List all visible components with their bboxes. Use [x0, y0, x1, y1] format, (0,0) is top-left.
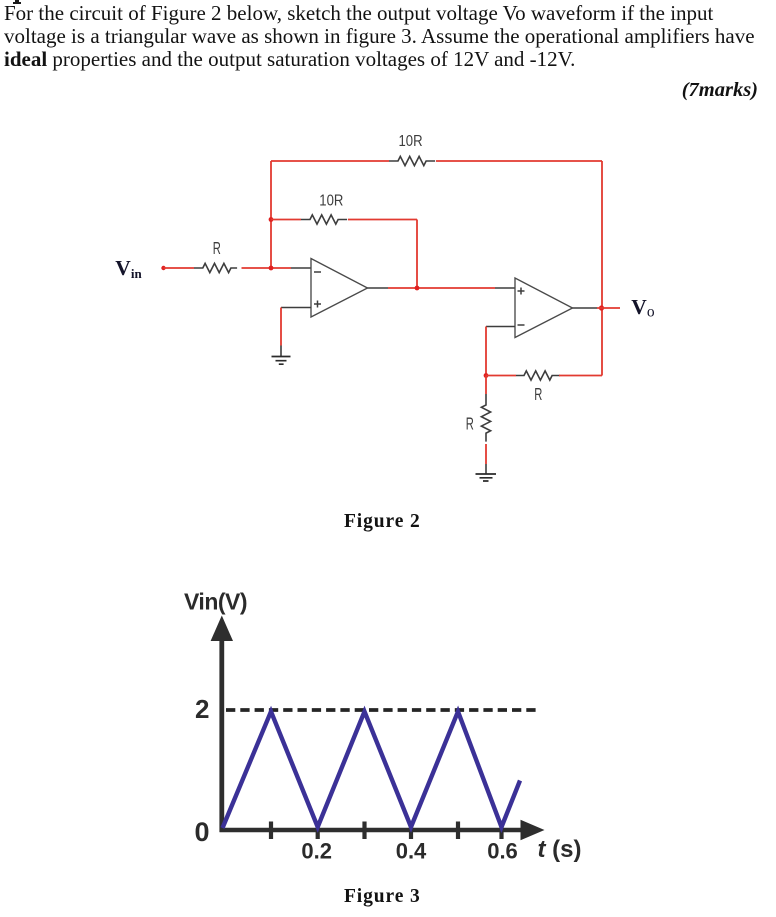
resistor R to ground [481, 394, 490, 442]
svg-text:0: 0 [195, 817, 210, 847]
wire from Vin terminal [164, 267, 195, 269]
svg-text:R: R [534, 386, 542, 405]
tick 0.5 [456, 822, 460, 840]
caption Figure 3 [344, 886, 421, 908]
y axis [219, 636, 224, 832]
wire top feedback right segment [436, 160, 602, 162]
wire inner feedback left segment [271, 219, 301, 221]
wire right vertical (output feedback bus) [601, 161, 603, 376]
wire U1 output to node A [388, 287, 495, 289]
wire resistor to ground [485, 444, 487, 464]
clipped glyph from previous line [15, 0, 19, 3]
wire U2 minus input stub [486, 326, 515, 328]
node output junction [599, 305, 604, 310]
wire U1 plus input stub [281, 307, 311, 309]
op-amp U1 [311, 259, 368, 318]
triangular wave [223, 712, 521, 829]
x axis arrowhead [521, 820, 545, 840]
resistor R feedback [516, 371, 560, 380]
svg-text:Vin: Vin [115, 256, 142, 281]
wire inner feedback right segment [348, 219, 417, 221]
wire U1 plus to ground [280, 308, 282, 346]
svg-text:R: R [466, 415, 474, 434]
node junction inner feedback [269, 217, 274, 222]
U1 minus sign [314, 271, 321, 273]
op-amp U2 [515, 278, 573, 338]
svg-text:R: R [213, 240, 221, 259]
U2 minus sign [518, 324, 525, 326]
x axis [220, 828, 523, 833]
svg-text:Vin(V): Vin(V) [184, 589, 247, 615]
wire U2 output [573, 307, 598, 309]
node A junction [415, 286, 420, 291]
svg-text:10R: 10R [399, 133, 423, 150]
wire stub to op-amp U2 plus input [495, 287, 515, 289]
ground symbol U1 [272, 357, 291, 365]
wire ground stub U1 [280, 346, 282, 357]
resistor R input [194, 263, 237, 272]
tick 0.6 [499, 822, 503, 840]
svg-text:t (s): t (s) [538, 836, 582, 863]
wire inner feedback vertical drop [416, 220, 418, 289]
tick 0.2 [316, 822, 320, 840]
svg-text:2: 2 [195, 694, 209, 724]
node B junction [484, 373, 489, 378]
wire feedback resistor to output bus [559, 375, 602, 377]
svg-text:Vo: Vo [631, 295, 655, 321]
dashed level 2 line [226, 708, 538, 712]
wire input to node [242, 267, 292, 269]
caption Figure 2 [344, 511, 421, 533]
wire left vertical [270, 161, 272, 268]
ground symbol lower [476, 474, 497, 481]
tick 0.1 [269, 822, 273, 840]
U2 plus sign [518, 288, 525, 295]
wire ground stub lower [485, 464, 487, 474]
tick 0.4 [409, 822, 413, 840]
node Vin terminal [161, 266, 165, 270]
svg-text:0.2: 0.2 [301, 839, 332, 864]
wire node B to feedback resistor [486, 375, 516, 377]
wire node B down [485, 376, 487, 395]
wire output stub to Vo [597, 307, 620, 309]
U1 plus sign [314, 301, 321, 308]
resistor 10R (inner feedback) [301, 215, 347, 224]
tick 0.3 [362, 822, 366, 840]
y axis arrowhead [211, 616, 233, 642]
svg-text:0.6: 0.6 [487, 839, 518, 864]
wire U1 output stub [368, 287, 389, 289]
wire top feedback left segment [271, 160, 389, 162]
svg-text:10R: 10R [319, 192, 343, 209]
wire U2 minus down to node B [485, 327, 487, 376]
resistor 10R (outer feedback) [389, 156, 435, 165]
svg-text:0.4: 0.4 [396, 839, 427, 864]
node inverting input junction [269, 266, 274, 271]
wire stub to op-amp U1 minus input [291, 267, 311, 269]
